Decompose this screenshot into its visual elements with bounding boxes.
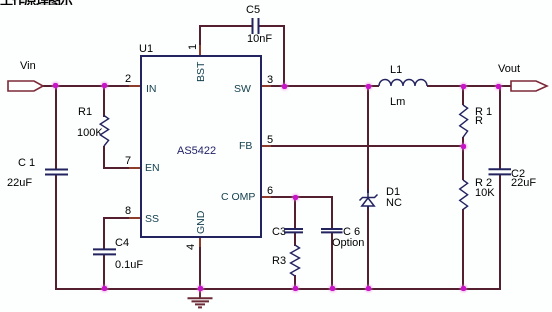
pin number 3 bbox=[267, 75, 273, 86]
resistor R2 label bbox=[475, 178, 492, 189]
pin name BST rotated bbox=[196, 62, 206, 82]
wire: C4 branch vertical top bbox=[103, 217, 105, 250]
wire: C1 branch vertical bottom bbox=[55, 175, 57, 290]
wire: D1 branch vertical bottom bbox=[367, 206, 369, 290]
Vin label bbox=[20, 61, 36, 72]
capacitor C3 plates bbox=[284, 229, 303, 232]
capacitor C1 plates bbox=[45, 170, 68, 175]
wire: C6 branch vertical bottom bbox=[331, 233, 333, 290]
node rail-R3 bbox=[293, 286, 298, 291]
capacitor C2 label bbox=[511, 169, 525, 180]
capacitor C6 plates bbox=[321, 229, 343, 232]
pin number 7 bbox=[125, 156, 131, 167]
wire: SW node to L1 bbox=[283, 85, 379, 87]
pin name IN bbox=[146, 84, 157, 94]
inductor L1 coil bbox=[379, 80, 427, 86]
node input-R1 bbox=[102, 83, 107, 88]
pin number 2 bbox=[125, 74, 131, 85]
Vout label bbox=[498, 64, 520, 75]
wire: R1 feedback branch vertical top bbox=[462, 85, 464, 105]
node rail-D1 bbox=[366, 286, 371, 291]
resistor R1 label (input divider) bbox=[78, 107, 92, 118]
wire: R2 bottom to rail bbox=[462, 209, 464, 290]
capacitor C4 plates bbox=[93, 249, 116, 254]
wire: EN horizontal bbox=[103, 167, 129, 169]
wire: C2 branch vertical bottom bbox=[499, 175, 501, 290]
port Vout bbox=[511, 81, 547, 91]
pin 5 stub FB bbox=[260, 145, 271, 147]
AS5422 value label bbox=[177, 146, 216, 157]
node FB divider bbox=[461, 144, 466, 149]
wire: L1 to Vout port bbox=[427, 85, 511, 87]
diode D1 label bbox=[386, 187, 400, 198]
wire: C5 left horizontal bbox=[199, 25, 252, 27]
node COMP-C3 bbox=[293, 195, 298, 200]
pin 4 stub GND bbox=[199, 236, 201, 247]
wire: R3 bottom to rail bbox=[294, 275, 296, 290]
pin number 4 rotated bbox=[186, 244, 197, 250]
pin name EN bbox=[145, 163, 160, 173]
wire: SW pin to C5 vertical bbox=[260, 85, 271, 87]
truncated caption text top-left bbox=[0, 0, 74, 5]
pin name COMP bbox=[221, 192, 255, 202]
wire: bottom ground rail bbox=[55, 288, 500, 290]
wire: C3 branch vertical top bbox=[294, 196, 296, 229]
node rail-C4 bbox=[102, 286, 107, 291]
node out-R1 bbox=[461, 84, 466, 89]
capacitor C4 label bbox=[115, 238, 129, 249]
wire: C1 branch vertical top bbox=[55, 85, 57, 169]
pin 6 stub COMP bbox=[260, 196, 271, 198]
resistor R1 zigzag (input) bbox=[100, 116, 108, 147]
pin name GND rotated bbox=[196, 211, 206, 234]
node SW-C5 bbox=[282, 84, 287, 89]
resistor R3 label bbox=[272, 256, 286, 267]
pin number 6 bbox=[267, 186, 273, 197]
wire: GND pin vertical to rail bbox=[199, 247, 201, 289]
node input-C1 bbox=[53, 83, 58, 88]
wire: D1 branch vertical top bbox=[367, 85, 369, 193]
wire: COMP horizontal bbox=[271, 196, 333, 198]
capacitor C2 plates bbox=[489, 169, 512, 174]
wire: C3 to R3 bbox=[294, 233, 296, 246]
wire: SS horizontal bbox=[129, 217, 140, 219]
wire: BST pin 1 vertical bbox=[199, 25, 201, 45]
wire: C4 branch vertical bottom bbox=[103, 255, 105, 290]
node rail-R2 bbox=[461, 286, 466, 291]
pin 2 stub IN bbox=[129, 85, 140, 87]
inductor L1 label bbox=[390, 65, 402, 76]
wire: FB horizontal to divider bbox=[271, 145, 463, 147]
node rail-C6 bbox=[330, 286, 335, 291]
resistor R1 label (feedback top) bbox=[475, 107, 492, 118]
capacitor C3 label bbox=[272, 227, 286, 238]
pin 7 stub EN bbox=[129, 167, 140, 169]
wire: C2 branch vertical top bbox=[499, 85, 501, 169]
capacitor C5 plates bbox=[253, 18, 259, 34]
capacitor C1 label bbox=[18, 158, 35, 169]
wire: top main input wire Vin to IN pin bbox=[43, 85, 130, 87]
diode D1 zener bbox=[360, 190, 378, 209]
node out-C2 bbox=[496, 84, 501, 89]
wire: R1 branch vertical from input wire bbox=[103, 85, 105, 117]
pin name SW bbox=[234, 84, 251, 94]
pin name FB bbox=[239, 141, 252, 151]
wire: FB junction to R2 bbox=[462, 145, 464, 180]
pin number 8 bbox=[125, 206, 131, 217]
U1 label bbox=[139, 44, 153, 55]
wire: R1 bottom to EN corner bbox=[103, 146, 105, 169]
wire: R1 to FB junction bbox=[462, 137, 464, 147]
node SW-D1 bbox=[366, 84, 371, 89]
node rail-GND bbox=[198, 286, 203, 291]
port Vin bbox=[8, 81, 43, 91]
resistor R1 zigzag (feedback) bbox=[460, 105, 468, 137]
ground symbol bbox=[188, 289, 213, 307]
pin name SS bbox=[145, 214, 159, 224]
resistor R3 zigzag bbox=[291, 245, 300, 276]
op-amp U1 IC box AS5422 bbox=[140, 55, 262, 238]
wire: C5 right horizontal bbox=[259, 25, 285, 27]
pin number 1 rotated bbox=[188, 44, 199, 50]
wire: C6 branch vertical top bbox=[331, 196, 333, 229]
resistor R2 zigzag bbox=[460, 180, 468, 210]
capacitor C6 label bbox=[343, 227, 360, 238]
wire: C5 right vertical down to SW node bbox=[283, 25, 285, 87]
capacitor C5 label bbox=[246, 5, 260, 16]
pin number 5 bbox=[267, 135, 273, 146]
